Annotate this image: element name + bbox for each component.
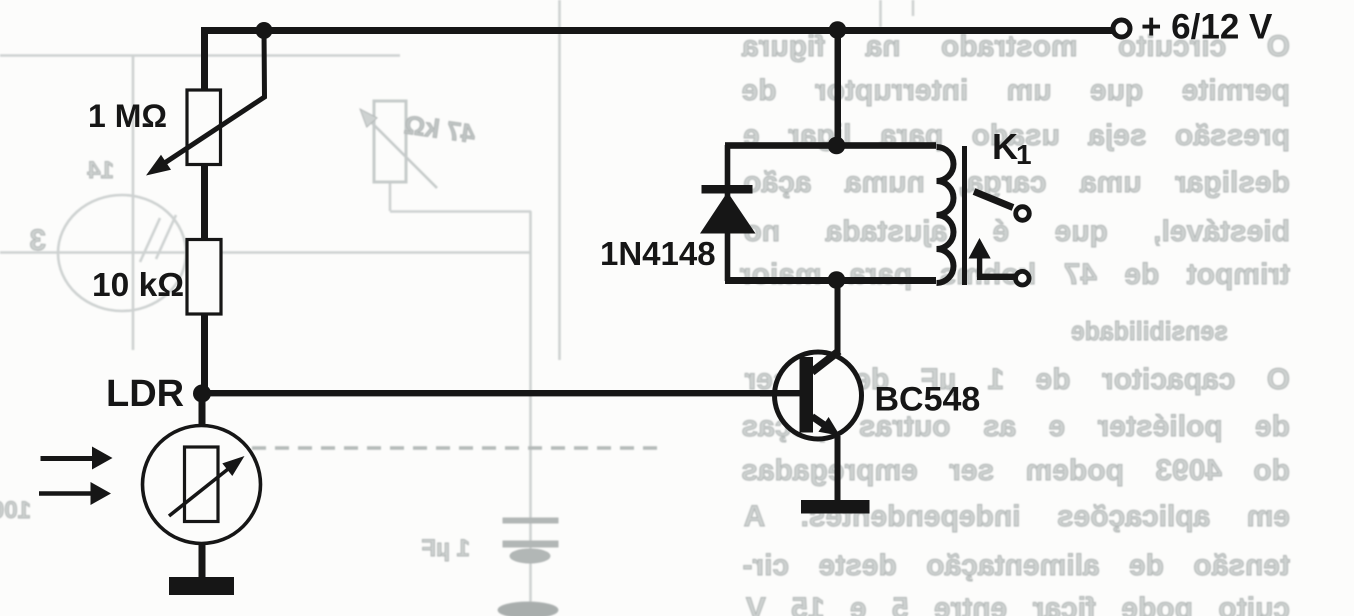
svg-text:3: 3 [29,224,46,257]
svg-text:1 MΩ: 1 MΩ [88,98,167,134]
svg-text:cuito pode ficar entre 5 e 15: cuito pode ficar entre 5 e 15 V [746,592,1290,616]
svg-text:+ 6/12 V: + 6/12 V [1141,8,1273,47]
svg-text:10 kΩ: 10 kΩ [92,267,184,304]
svg-text:permite que um interruptor de: permite que um interruptor de [742,74,1290,107]
svg-text:14: 14 [87,157,114,184]
svg-text:1: 1 [1016,139,1032,170]
svg-text:sensibilidade: sensibilidade [1071,318,1228,346]
svg-text:do 4093 podem ser empregadas: do 4093 podem ser empregadas [741,454,1290,487]
svg-text:K: K [992,126,1018,167]
svg-text:1N4148: 1N4148 [600,235,716,272]
svg-text:desligar uma carga, numa ação: desligar uma carga, numa ação [743,166,1290,199]
svg-text:1 µF: 1 µF [421,535,470,562]
svg-text:tensão de alimentação deste ci: tensão de alimentação deste cir- [742,549,1290,582]
svg-text:BC548: BC548 [875,381,981,419]
svg-text:LDR: LDR [106,373,184,415]
svg-text:47 kΩ: 47 kΩ [402,109,477,149]
svg-text:100: 100 [0,497,31,524]
